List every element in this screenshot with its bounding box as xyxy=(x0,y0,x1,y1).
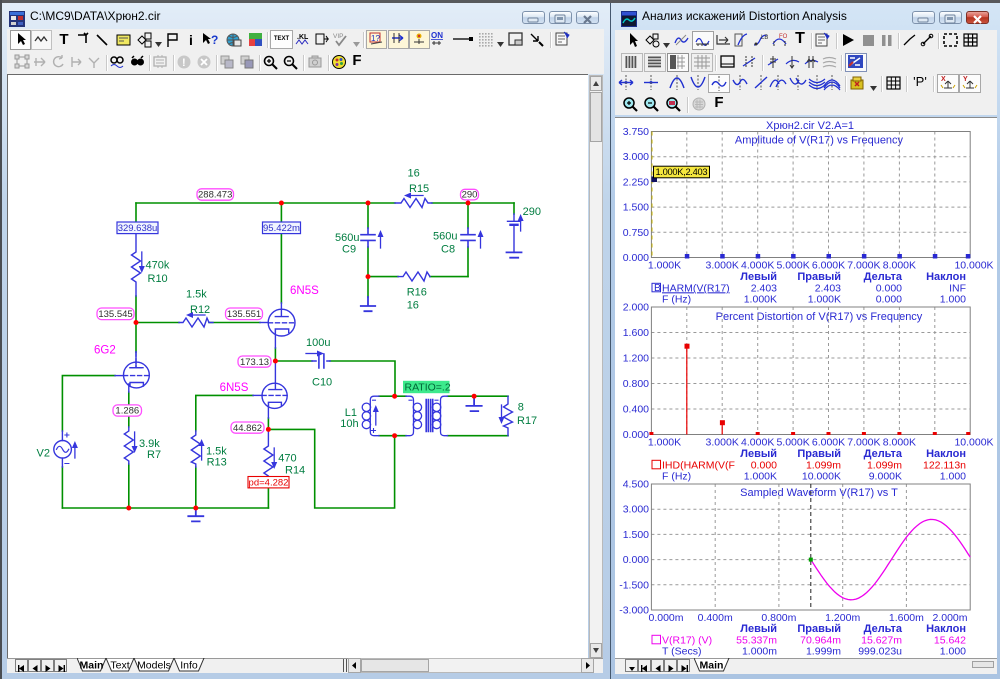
junction dots xyxy=(126,201,476,511)
svg-text:0.000: 0.000 xyxy=(623,554,649,566)
svg-text:10h: 10h xyxy=(340,418,358,430)
svg-text:8: 8 xyxy=(518,402,524,414)
svg-text:!: ! xyxy=(182,57,186,69)
schematic white area xyxy=(7,74,588,658)
svg-text:LB: LB xyxy=(761,35,768,41)
svg-text:6N5S: 6N5S xyxy=(290,285,319,297)
svg-text:Дельта: Дельта xyxy=(864,623,903,635)
wire 6G2 anode up xyxy=(135,323,137,353)
blue lead 6G2 grid xyxy=(115,375,124,377)
svg-text:Info: Info xyxy=(180,660,198,672)
battery V 290 xyxy=(508,214,521,252)
inductor L1 xyxy=(362,396,379,436)
svg-text:7.000K: 7.000K xyxy=(847,437,880,449)
title bar xyxy=(9,11,25,27)
svg-text:560u: 560u xyxy=(433,231,457,243)
bottom tab bar xyxy=(615,658,997,674)
svg-text:F (Hz): F (Hz) xyxy=(662,471,691,483)
magenta tube names xyxy=(94,285,319,394)
svg-text:Percent Distortion of V(R17) v: Percent Distortion of V(R17) vs Frequenc… xyxy=(716,311,923,323)
triode 6N5S U3 (lower) xyxy=(262,361,287,418)
svg-text:1.000: 1.000 xyxy=(940,294,966,306)
wire C9 branch xyxy=(367,203,369,277)
V2 current arrow xyxy=(72,441,78,458)
svg-text:1.286: 1.286 xyxy=(115,406,139,417)
svg-text:Main: Main xyxy=(700,660,724,672)
svg-text:INF: INF xyxy=(949,282,966,294)
svg-text:Левый: Левый xyxy=(740,448,777,460)
svg-text:C9: C9 xyxy=(342,244,356,256)
svg-text:1.500: 1.500 xyxy=(623,202,649,214)
svg-text:V2: V2 xyxy=(37,447,50,459)
svg-text:Text: Text xyxy=(110,660,129,672)
svg-text:0.000: 0.000 xyxy=(876,294,902,306)
svg-text:5.000K: 5.000K xyxy=(776,437,809,449)
C10 current arrow xyxy=(306,351,324,357)
toolbar 2 xyxy=(7,52,604,74)
plot panel xyxy=(615,117,997,658)
svg-text:1.200: 1.200 xyxy=(623,353,649,365)
battery current arrow xyxy=(518,214,524,231)
wire node 44.862 feedback loop to transformer bottom xyxy=(268,429,394,508)
svg-text:-1.500: -1.500 xyxy=(619,579,649,591)
svg-text:Наклон: Наклон xyxy=(926,623,966,635)
node 290 xyxy=(461,189,479,200)
svg-text:8.000K: 8.000K xyxy=(883,437,916,449)
svg-text:0.000m: 0.000m xyxy=(648,612,683,624)
wire top rail xyxy=(136,202,514,204)
vertical scrollbar xyxy=(589,75,603,658)
C9 current arrow xyxy=(378,230,384,248)
current label 95.422m xyxy=(263,222,301,234)
wire tube1 cathode to node 173.13 xyxy=(274,348,276,361)
wire C8 branch xyxy=(467,203,469,277)
svg-text:R17: R17 xyxy=(517,415,537,427)
wire transformer secondary top and bottom xyxy=(448,396,509,436)
svg-text:Sampled Waveform V(R17) vs T: Sampled Waveform V(R17) vs T xyxy=(740,487,898,499)
svg-text:Дельта: Дельта xyxy=(864,271,903,283)
transformer primary coil xyxy=(406,396,422,436)
svg-text:Левый: Левый xyxy=(740,271,777,283)
svg-text:2.403: 2.403 xyxy=(815,282,841,294)
node 288.473 xyxy=(197,189,234,201)
wire tube2 cathode to node 44.862 xyxy=(267,418,269,429)
svg-text:Наклон: Наклон xyxy=(926,448,966,460)
svg-text:1.099m: 1.099m xyxy=(867,459,902,471)
ground under battery xyxy=(507,252,522,257)
blue lead tube2 grid xyxy=(253,394,262,396)
svg-text:?: ? xyxy=(211,33,218,47)
svg-text:1.000: 1.000 xyxy=(940,646,966,658)
node 135.551 xyxy=(226,308,263,320)
svg-text:7.000K: 7.000K xyxy=(847,260,880,272)
ground on bottom rail xyxy=(188,508,203,521)
transformer core xyxy=(426,400,433,432)
svg-text:1.099m: 1.099m xyxy=(806,459,841,471)
svg-text:122.113n: 122.113n xyxy=(923,459,966,471)
svg-text:9.000K: 9.000K xyxy=(869,471,902,483)
resistor R14 xyxy=(264,429,273,481)
svg-text:329.638u: 329.638u xyxy=(118,223,158,234)
svg-text:0.750: 0.750 xyxy=(623,227,649,239)
svg-text:1.5k: 1.5k xyxy=(186,289,207,301)
svg-text:135.551: 135.551 xyxy=(227,309,261,320)
triode 6G2 U1 xyxy=(123,352,149,392)
svg-text:VIP: VIP xyxy=(333,33,343,40)
svg-text:3.000: 3.000 xyxy=(623,504,649,516)
current boxes xyxy=(117,222,301,234)
R14 current arrow xyxy=(271,448,277,469)
svg-text:Models: Models xyxy=(137,660,171,672)
wire node 135.545 to R12 to tube grid xyxy=(136,322,260,324)
svg-text:-3.000: -3.000 xyxy=(619,605,649,617)
svg-text:560u: 560u xyxy=(335,232,359,244)
node 135.545 xyxy=(97,308,134,320)
svg-text:55.337m: 55.337m xyxy=(736,634,777,646)
svg-text:1.000K: 1.000K xyxy=(648,260,681,272)
svg-text:V(R17) (V): V(R17) (V) xyxy=(662,634,712,646)
wire battery 290 drop xyxy=(513,203,515,214)
toolbar 1 xyxy=(7,29,604,53)
svg-text:470k: 470k xyxy=(146,260,170,272)
resistor R17 xyxy=(504,396,513,436)
node 1.286 xyxy=(113,405,142,417)
L1 current arrow xyxy=(373,405,379,425)
R12 current arrow xyxy=(186,312,205,318)
green value labels xyxy=(37,168,541,477)
ground under C9 branch xyxy=(361,297,375,311)
svg-text:5.000K: 5.000K xyxy=(776,260,809,272)
svg-text:0.000: 0.000 xyxy=(876,282,902,294)
svg-text:173.13: 173.13 xyxy=(240,357,269,368)
svg-text:290: 290 xyxy=(462,190,478,201)
wire R16 row xyxy=(368,276,468,278)
R7 current arrow xyxy=(132,432,138,453)
node 44.862 xyxy=(231,422,264,434)
R13 current arrow xyxy=(199,439,205,460)
svg-text:6G2: 6G2 xyxy=(94,345,116,357)
svg-text:Наклон: Наклон xyxy=(926,271,966,283)
svg-text:FO: FO xyxy=(779,34,788,40)
svg-text:15.627m: 15.627m xyxy=(861,634,902,646)
svg-text:1.000K: 1.000K xyxy=(744,471,777,483)
svg-text:1?: 1? xyxy=(371,34,380,43)
C8 current arrow xyxy=(478,230,484,248)
RATIO banner xyxy=(403,381,451,394)
svg-text:RATIO=.2: RATIO=.2 xyxy=(405,382,451,394)
resistor R16 xyxy=(398,272,430,281)
resistor R15 xyxy=(395,199,432,208)
svg-text:999.023u: 999.023u xyxy=(858,646,902,658)
pd power box xyxy=(248,477,289,489)
svg-text:1.999m: 1.999m xyxy=(806,646,841,658)
svg-text:100u: 100u xyxy=(306,337,330,349)
svg-text:HARM(V(R17): HARM(V(R17) xyxy=(662,282,730,294)
svg-text:R14: R14 xyxy=(285,465,305,477)
svg-text:Main: Main xyxy=(80,660,104,672)
transformer secondary coil xyxy=(432,396,447,436)
capacitor C10 xyxy=(312,354,330,368)
svg-text:Хрюн2.cir V2.A=1: Хрюн2.cir V2.A=1 xyxy=(766,120,854,132)
svg-text:ON: ON xyxy=(431,31,443,40)
svg-text:135.545: 135.545 xyxy=(98,309,132,320)
svg-text:X: X xyxy=(941,76,946,83)
wire 6G2 grid from V2 xyxy=(62,376,115,431)
svg-text:1.000K,2.403: 1.000K,2.403 xyxy=(656,167,708,177)
svg-text:10.000K: 10.000K xyxy=(954,437,993,449)
resistor R7 xyxy=(124,427,133,464)
svg-text:0.000: 0.000 xyxy=(623,252,649,264)
svg-text:3.000K: 3.000K xyxy=(706,437,739,449)
svg-text:3.750: 3.750 xyxy=(623,126,649,138)
node voltage bubbles xyxy=(97,189,479,434)
svg-text:288.473: 288.473 xyxy=(198,190,232,201)
svg-text:Правый: Правый xyxy=(797,623,841,635)
svg-text:8.000K: 8.000K xyxy=(883,260,916,272)
svg-text:4.000K: 4.000K xyxy=(741,260,774,272)
svg-text:pd=4.282: pd=4.282 xyxy=(249,477,289,488)
svg-text:0.000: 0.000 xyxy=(751,459,777,471)
svg-text:2.000: 2.000 xyxy=(623,302,649,314)
svg-text:T (Secs): T (Secs) xyxy=(662,646,701,658)
resistor R10 xyxy=(132,234,141,296)
svg-text:F (Hz): F (Hz) xyxy=(662,294,691,306)
R17 current arrow xyxy=(499,405,505,424)
triode 6N5S U2 (upper) xyxy=(268,303,295,348)
svg-text:C10: C10 xyxy=(312,377,332,389)
capacitor C8 xyxy=(461,228,475,247)
svg-text:3.000: 3.000 xyxy=(623,151,649,163)
wire R14 bottom xyxy=(267,481,269,508)
svg-text:Y: Y xyxy=(963,76,968,83)
svg-text:1.000m: 1.000m xyxy=(742,646,777,658)
svg-text:1.600: 1.600 xyxy=(623,327,649,339)
node 173.13 xyxy=(238,356,271,368)
svg-text:95.422m: 95.422m xyxy=(263,223,300,234)
svg-text:4.000K: 4.000K xyxy=(741,437,774,449)
svg-text:6N5S: 6N5S xyxy=(220,382,249,394)
svg-text:6.000K: 6.000K xyxy=(812,437,845,449)
svg-text:4.500: 4.500 xyxy=(623,479,649,491)
svg-text:15.642: 15.642 xyxy=(934,634,966,646)
svg-text:1.000K: 1.000K xyxy=(744,294,777,306)
svg-text:2.250: 2.250 xyxy=(623,176,649,188)
svg-text:Amplitude of V(R17) vs Frequen: Amplitude of V(R17) vs Frequency xyxy=(735,135,904,147)
wire L1 connections xyxy=(379,396,406,436)
capacitor C9 xyxy=(361,228,375,247)
svg-text:1.000K: 1.000K xyxy=(648,437,681,449)
svg-text:R13: R13 xyxy=(207,457,227,469)
svg-text:Дельта: Дельта xyxy=(864,448,903,460)
resistor R13 xyxy=(191,431,200,467)
toolbars xyxy=(615,30,997,53)
svg-text:6.000K: 6.000K xyxy=(812,260,845,272)
svg-text:1.000: 1.000 xyxy=(940,471,966,483)
R10 current arrow xyxy=(139,252,145,273)
bottom tab bar xyxy=(7,658,603,673)
wire ground stem C9 xyxy=(367,277,369,297)
svg-text:0.800: 0.800 xyxy=(623,378,649,390)
svg-text:10.000K: 10.000K xyxy=(954,260,993,272)
sine source V2 xyxy=(54,431,72,467)
svg-text:16: 16 xyxy=(407,299,419,311)
svg-text:3.000K: 3.000K xyxy=(706,260,739,272)
blue lead tube1 grid xyxy=(260,322,268,324)
svg-text:R15: R15 xyxy=(409,183,429,195)
svg-text:0.400m: 0.400m xyxy=(698,612,733,624)
current label 329.638u xyxy=(117,222,158,234)
svg-text:0.400: 0.400 xyxy=(623,404,649,416)
svg-text:70.964m: 70.964m xyxy=(800,634,841,646)
svg-text:1.000K: 1.000K xyxy=(808,294,841,306)
wire R13 branch xyxy=(196,395,253,508)
svg-text:16: 16 xyxy=(408,168,420,180)
svg-text:R16: R16 xyxy=(407,286,427,298)
svg-text:R7: R7 xyxy=(147,449,161,461)
svg-text:Левый: Левый xyxy=(740,623,777,635)
wire 6G2 cathode to R7 xyxy=(128,392,130,508)
svg-text:290: 290 xyxy=(523,206,541,218)
svg-text:44.862: 44.862 xyxy=(233,423,262,434)
svg-text:Правый: Правый xyxy=(797,448,841,460)
svg-text:0.000: 0.000 xyxy=(623,429,649,441)
svg-text:10.000K: 10.000K xyxy=(802,471,841,483)
svg-text:IHD(HARM(V(F: IHD(HARM(V(F xyxy=(662,459,735,471)
svg-text:1.500: 1.500 xyxy=(623,529,649,541)
svg-text:B: B xyxy=(654,282,661,294)
wire bottom ground rail xyxy=(62,507,268,509)
svg-text:Правый: Правый xyxy=(797,271,841,283)
ground on transformer secondary xyxy=(466,396,481,411)
wire R10 branch vertical xyxy=(135,203,137,322)
svg-text:R10: R10 xyxy=(148,273,168,285)
desktop top strip xyxy=(0,0,1000,3)
wire node 173.13 to C10 and to transformer xyxy=(275,361,395,396)
resistor R12 xyxy=(179,318,213,327)
title bar xyxy=(621,11,637,27)
svg-text:2.403: 2.403 xyxy=(751,282,777,294)
wire V2 bottom xyxy=(61,467,63,508)
wire tube1 anode from rail xyxy=(280,203,282,303)
svg-text:470: 470 xyxy=(278,453,296,465)
svg-text:C8: C8 xyxy=(441,243,455,255)
svg-text:R12: R12 xyxy=(190,304,210,316)
R15 current arrow xyxy=(404,193,423,199)
